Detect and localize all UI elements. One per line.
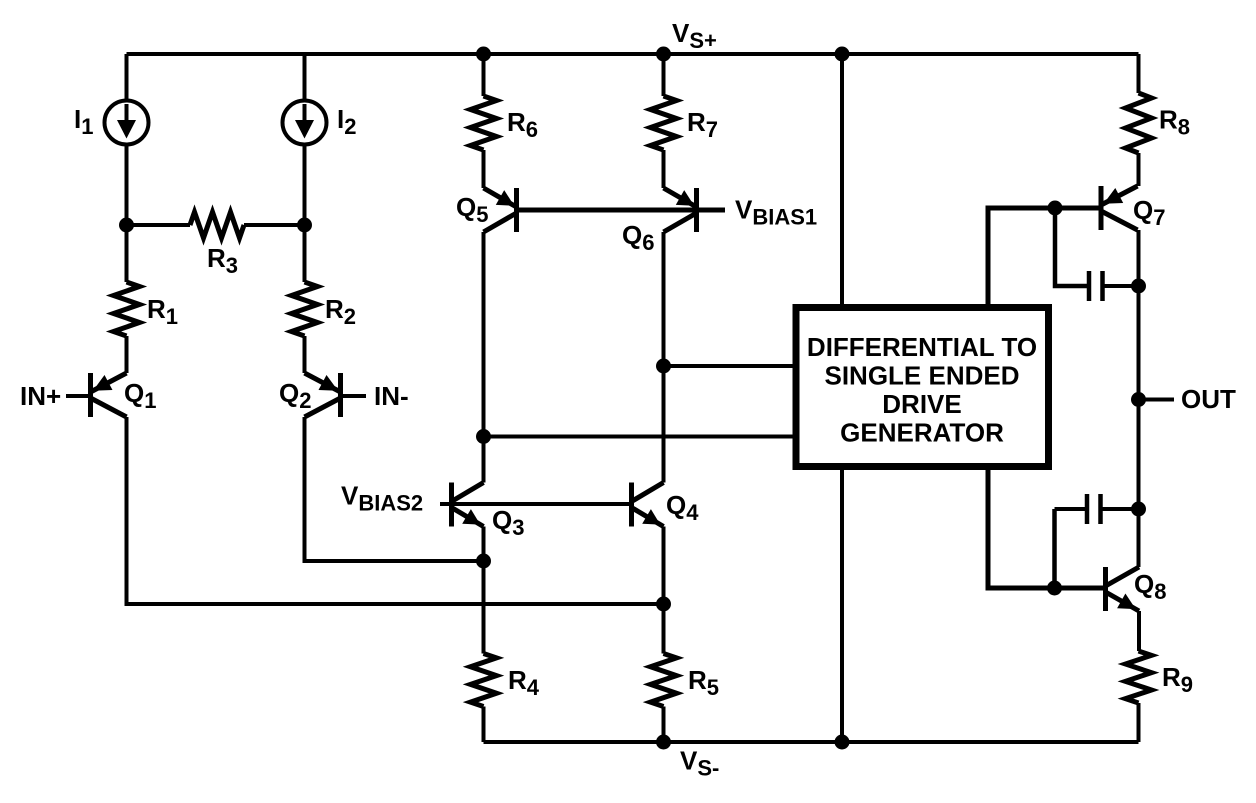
node node VS- / R5 [656, 735, 671, 750]
svg-text:DIFFERENTIAL TO: DIFFERENTIAL TO [807, 332, 1037, 362]
current source I2 [283, 101, 327, 145]
wire C2 to Q8 base node [1052, 509, 1057, 588]
svg-text:OUT: OUT [1181, 384, 1236, 414]
node node C1 / Q7 collector [1131, 279, 1146, 294]
wire R1 to Q1 emitter [125, 336, 129, 373]
node node B (I2/R2/R3) [297, 218, 312, 233]
resistor R6 [471, 96, 539, 150]
resistor R7 [651, 96, 719, 150]
wire bottom rail V_S- [484, 740, 1139, 744]
transistor Q4 [632, 483, 664, 527]
wire Q5/Q3 collector node to generator box [484, 435, 793, 439]
wire I1 to node/R1 [125, 145, 129, 283]
wire VS+ to R8 [1137, 54, 1141, 93]
wire Q7 base to generator box top [988, 208, 1101, 304]
node node Q2 collector / Q3 emitter [476, 554, 491, 569]
node node C2 / Q8 collector [1131, 502, 1146, 517]
wire R3 to node B [244, 223, 305, 227]
svg-text:SINGLE ENDED: SINGLE ENDED [824, 361, 1019, 391]
current source I1 [105, 101, 149, 145]
node node Q7 base / C1 [1048, 201, 1063, 216]
wire Q6 collector node to generator box [664, 364, 793, 368]
node node OUT [1131, 392, 1146, 407]
wire C2 left [1055, 507, 1088, 511]
node node A (I1/R1/R3) [119, 218, 134, 233]
transistor Q3 [452, 483, 484, 527]
wire R5 to VS- rail [662, 707, 666, 743]
transistor Q1 [91, 373, 127, 417]
wire Q7 collector to Q8 collector (OUT column) [1137, 230, 1141, 567]
wire R9 to VS- rail [1137, 703, 1141, 742]
svg-text:GENERATOR: GENERATOR [840, 418, 1004, 448]
wire VS+ to R7 [662, 54, 666, 96]
wire VS+ to R6 [482, 54, 486, 96]
wire Q5 base to Q6 base to V_BIAS1 [517, 208, 726, 213]
node node VS- / box [835, 735, 850, 750]
node node Q5 collector / box input 2 [476, 429, 491, 444]
transistor Q6 [664, 188, 697, 232]
wire Q2 collector to node at Q3 emitter [305, 417, 484, 561]
wire Q3 emitter to R4 [482, 527, 486, 654]
wire OUT stub [1139, 398, 1175, 402]
node node Q8 base / C2 [1047, 581, 1062, 596]
wire VS+ to I1 [125, 54, 129, 101]
svg-text:IN-: IN- [374, 381, 409, 411]
wire Q4 emitter to R5 [662, 527, 666, 654]
wire node A to R3 [127, 223, 191, 227]
wire Q7 base node to C1 [1055, 208, 1089, 286]
resistor R2 [292, 282, 357, 336]
wire generator box bottom to VS- [840, 470, 844, 742]
resistor R9 [1126, 651, 1194, 703]
wire Q6 collector to Q4 collector [662, 232, 666, 483]
transistor Q7 [1101, 186, 1138, 230]
wire R2 to Q2 emitter [303, 336, 307, 373]
wire IN+ to Q1 base [66, 394, 91, 398]
wire C2 to Q8 collector column [1101, 507, 1140, 511]
wire R8 to Q7 emitter [1137, 153, 1141, 186]
transistor Q2 [305, 373, 341, 417]
svg-text:DRIVE: DRIVE [882, 389, 961, 419]
node node VS+ / R6 [476, 47, 491, 62]
node node Q6 collector / box input 1 [656, 359, 671, 374]
resistor R5 [651, 654, 720, 707]
wire I2 to node/R2 [303, 145, 307, 283]
wire Q2 base to IN- [341, 394, 367, 398]
wire Q1 collector to node at Q4 emitter [127, 417, 664, 604]
wire Q8 base to generator box bottom [988, 470, 1106, 588]
node node VS+ / R7 [656, 47, 671, 62]
resistor R1 [114, 282, 179, 336]
transistor Q5 [484, 188, 517, 232]
svg-text:IN+: IN+ [20, 381, 61, 411]
resistor R4 [471, 654, 540, 707]
wire C1 to Q7 collector column [1103, 284, 1139, 288]
wire R4 to VS- rail [482, 707, 486, 743]
capacitor C1 [1089, 271, 1103, 301]
resistor R3 [190, 212, 244, 278]
resistor R8 [1126, 93, 1191, 153]
node node Q1 collector / Q4 emitter [656, 597, 671, 612]
wire VS+ to I2 [303, 54, 307, 101]
node node VS+ / box [835, 47, 850, 62]
wire top rail V_S+ [127, 52, 1139, 56]
wire VS+ to generator box top [840, 54, 844, 304]
block DIFFERENTIAL TO SINGLE ENDED DRIVE GENERATOR [796, 308, 1049, 467]
wire V_BIAS2 to Q3 base to Q4 base [440, 502, 632, 506]
capacitor C2 [1087, 494, 1101, 524]
wire R6 to Q5 emitter [482, 150, 486, 188]
wire Q5 collector to Q3 collector [482, 232, 486, 483]
transistor Q8 [1106, 567, 1140, 611]
wire R7 to Q6 emitter [662, 150, 666, 188]
wire Q8 emitter to R9 [1137, 611, 1141, 651]
